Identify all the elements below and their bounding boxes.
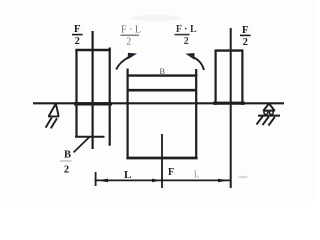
svg-text:F · L: F · L — [176, 24, 197, 35]
svg-text:F: F — [242, 24, 249, 36]
svg-text:2: 2 — [126, 37, 131, 48]
svg-text:2: 2 — [75, 36, 80, 47]
svg-text:F · L: F · L — [121, 25, 141, 36]
svg-text:2: 2 — [184, 36, 189, 47]
svg-text:F: F — [168, 167, 174, 178]
svg-text:F: F — [74, 23, 81, 35]
svg-text:B: B — [159, 66, 165, 76]
svg-text:2: 2 — [64, 165, 69, 176]
svg-text:l.: l. — [194, 170, 199, 181]
svg-text:2: 2 — [243, 37, 248, 48]
svg-text:L: L — [124, 169, 131, 181]
svg-text:B: B — [64, 150, 71, 161]
